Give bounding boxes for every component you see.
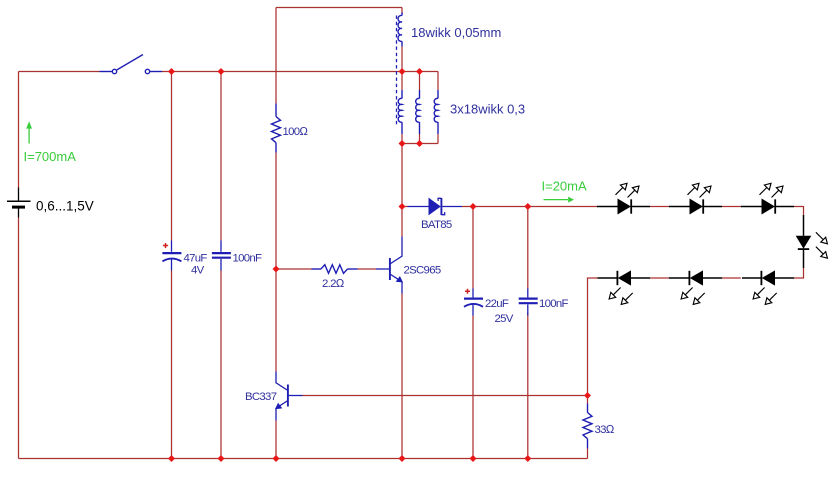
LED D4 light arrows bbox=[821, 237, 828, 244]
wire top rail battery to switch bbox=[19, 71, 100, 73]
battery 0,6...1,5V bbox=[7, 188, 31, 218]
LED D3 top row bbox=[741, 199, 794, 215]
wire 100ohm riser bbox=[275, 8, 277, 104]
transistor BC337 emitter arrow bbox=[275, 403, 282, 410]
wire 100ohm to node A bbox=[275, 153, 277, 270]
wire secondary to BAT85 node bbox=[401, 144, 403, 207]
svg-text:25V: 25V bbox=[495, 313, 514, 325]
svg-text:0,6...1,5V: 0,6...1,5V bbox=[36, 199, 94, 214]
LED D1 light arrows bbox=[620, 183, 627, 190]
svg-text:4V: 4V bbox=[191, 265, 205, 277]
LED D5 bottom row pointing left bbox=[742, 270, 794, 285]
wire bottom ground rail bbox=[19, 458, 588, 460]
LED D6 light arrows bbox=[681, 292, 688, 299]
wire LED2 to LED3 bbox=[722, 206, 741, 208]
wire LED5 to LED6 red segment bbox=[722, 277, 741, 279]
wire top feedback box horizontal bbox=[276, 7, 402, 9]
junction 47uF top rail bbox=[168, 68, 175, 75]
capacitor 100nF left bbox=[212, 241, 231, 271]
wire 100nF right top bbox=[527, 207, 529, 289]
wire LED6 to LED7 red segment bbox=[650, 277, 669, 279]
svg-text:22uF: 22uF bbox=[485, 298, 509, 310]
svg-text:BC337: BC337 bbox=[245, 391, 277, 403]
LED D3 light arrows bbox=[764, 183, 771, 190]
svg-text:47uF: 47uF bbox=[184, 253, 208, 265]
wire LED1 to LED2 bbox=[650, 206, 669, 208]
capacitor 22uF plus sign bbox=[465, 289, 470, 294]
wire primary bottom to rail bbox=[401, 47, 403, 72]
current arrow I=20mA bbox=[544, 199, 569, 201]
junction 100nF top rail bbox=[218, 68, 225, 75]
svg-text:2SC965: 2SC965 bbox=[404, 265, 441, 277]
wire LED4 to bottom right corner bbox=[794, 268, 804, 278]
LED D4 right column pointing down bbox=[796, 215, 812, 268]
wire secondary3 bottom corner bbox=[437, 134, 439, 144]
resistor 2.2ohm bbox=[312, 265, 358, 274]
current arrow I=700mA bbox=[28, 128, 30, 144]
LED D2 top row bbox=[669, 199, 722, 215]
resistor 33ohm bbox=[583, 404, 592, 449]
wire secondary2 top bbox=[419, 72, 421, 91]
svg-text:I=20mA: I=20mA bbox=[542, 179, 587, 194]
transistor 2SC965 bbox=[376, 237, 402, 294]
wire BAT85 node to 2SC965 collector bbox=[401, 207, 403, 237]
wire 47uF top bbox=[171, 72, 173, 241]
wire node A to 2.2ohm bbox=[276, 268, 312, 270]
wire 47uF bottom bbox=[171, 271, 173, 459]
wire 100nF left bottom bbox=[220, 271, 222, 459]
diode BAT85 anode triangle bbox=[429, 198, 441, 216]
junction 2SC965 emitter ground rail bbox=[399, 455, 406, 462]
svg-text:18wikk 0,05mm: 18wikk 0,05mm bbox=[411, 25, 501, 40]
wire BC337 base feedback bbox=[303, 395, 588, 397]
wire battery top riser bbox=[18, 72, 20, 188]
transformer core dashed line bbox=[396, 16, 398, 125]
junction 100nF output node bbox=[524, 203, 531, 210]
wire BC337 emitter to rail bbox=[275, 421, 277, 459]
resistor 100ohm bbox=[272, 104, 281, 153]
capacitor 47uF bbox=[162, 241, 181, 271]
junction feedback node 33ohm bbox=[584, 392, 591, 399]
svg-text:33Ω: 33Ω bbox=[595, 424, 615, 436]
wire top rail switch to transformer bbox=[162, 71, 438, 73]
svg-text:100nF: 100nF bbox=[539, 298, 569, 310]
junction BAT85 anode node bbox=[399, 203, 406, 210]
wire primary top lead bbox=[401, 8, 403, 14]
junction secondary2 bottom bus bbox=[416, 140, 423, 147]
transformer secondary winding 2 bbox=[416, 90, 420, 134]
junction secondary1 bottom bus bbox=[399, 140, 406, 147]
LED D2 light arrows bbox=[692, 183, 699, 190]
wire battery bottom to rail bbox=[18, 218, 20, 459]
LED D7 light arrows bbox=[609, 292, 616, 299]
switch S1 bbox=[100, 55, 163, 74]
wire 100nF left top bbox=[220, 72, 222, 241]
LED D7 bottom row pointing left bbox=[598, 270, 651, 285]
wire 22uF bottom bbox=[472, 316, 474, 459]
junction primary bottom top rail bbox=[399, 68, 406, 75]
wire secondary2 bottom bbox=[419, 134, 421, 144]
capacitor 22uF bbox=[464, 289, 483, 316]
wire BAT85 cathode to LED row bbox=[462, 206, 597, 208]
wire node A to BC337 collector bbox=[275, 269, 277, 372]
wire secondary1 top bbox=[401, 72, 403, 91]
transformer secondary winding 3 bbox=[434, 90, 438, 134]
transformer primary winding 18wikk bbox=[398, 13, 402, 47]
junction 22uF output node bbox=[470, 203, 477, 210]
junction 100nF ground rail bbox=[218, 455, 225, 462]
LED D5 light arrows bbox=[753, 292, 760, 299]
svg-text:100Ω: 100Ω bbox=[283, 126, 309, 138]
wire secondary bottom bus bbox=[402, 143, 438, 145]
junction secondary2 top rail bbox=[416, 68, 423, 75]
svg-text:2.2Ω: 2.2Ω bbox=[322, 278, 345, 290]
junction 22uF ground rail bbox=[470, 455, 477, 462]
wire BAT85 anode stub bbox=[402, 206, 408, 208]
wire 2SC965 emitter to rail bbox=[401, 294, 403, 459]
wire 33ohm to rail corner bbox=[587, 449, 589, 459]
wire 22uF top bbox=[472, 207, 474, 289]
diode BAT85 bbox=[408, 198, 463, 215]
junction node A 100ohm 2.2ohm BC337 bbox=[273, 266, 280, 273]
wire secondary1 bottom bbox=[401, 134, 403, 144]
svg-text:100nF: 100nF bbox=[233, 253, 263, 265]
wire feedback node to 33ohm bbox=[587, 396, 589, 404]
svg-text:3x18wikk 0,3: 3x18wikk 0,3 bbox=[450, 102, 525, 117]
wire 2.2ohm to 2SC965 base bbox=[358, 268, 377, 270]
wire 100nF right bottom bbox=[527, 313, 529, 459]
svg-text:I=700mA: I=700mA bbox=[24, 149, 77, 164]
LED D6 bottom row pointing left bbox=[669, 270, 722, 285]
capacitor 47uF plus sign bbox=[163, 243, 168, 248]
wire LED7 to left corner bbox=[588, 278, 598, 396]
transistor 2SC965 emitter arrow bbox=[396, 276, 403, 283]
capacitor 100nF right bbox=[519, 289, 538, 316]
junction BC337 emitter ground rail bbox=[273, 455, 280, 462]
junction 47uF ground rail bbox=[168, 455, 175, 462]
transformer secondary winding 1 bbox=[398, 90, 402, 134]
wire secondary3 top corner bbox=[437, 72, 439, 91]
junction 100nF right ground rail bbox=[524, 455, 531, 462]
svg-text:BAT85: BAT85 bbox=[421, 219, 452, 231]
wire LED3 to right corner bbox=[794, 207, 804, 216]
LED D1 top row bbox=[597, 199, 650, 215]
transistor BC337 bbox=[276, 372, 303, 421]
